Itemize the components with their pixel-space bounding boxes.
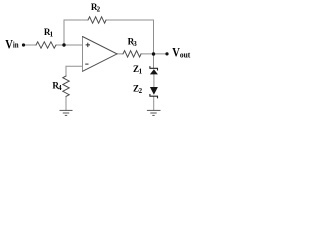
ground under Z2 <box>147 110 161 115</box>
svg-text:Vout: Vout <box>172 47 190 60</box>
resistor R1 <box>36 42 56 48</box>
node junction output rail <box>152 52 155 55</box>
svg-text:Z1: Z1 <box>133 64 143 75</box>
node Vin terminal dot <box>22 43 25 46</box>
svg-text:R2: R2 <box>91 2 101 13</box>
wire R1 to op-amp plus input <box>56 44 83 46</box>
resistor R3 <box>123 51 141 57</box>
wire feedback left vertical <box>63 20 65 45</box>
wire Z2 to right ground <box>153 96 155 110</box>
zener Z2 anode triangle <box>150 87 158 95</box>
zener Z2 cathode bar with bent ends <box>150 94 158 98</box>
wire right rail top vertical <box>153 20 155 54</box>
zener Z1 cathode bar with bent ends <box>150 66 158 70</box>
wire right rail to zener Z1 <box>153 54 155 68</box>
svg-text:R4: R4 <box>52 81 62 92</box>
op-amp left edge <box>82 37 84 72</box>
svg-text:Vin: Vin <box>5 39 19 52</box>
wire op-amp output to R3 <box>117 53 123 55</box>
svg-text:R1: R1 <box>44 27 54 38</box>
wire between zeners <box>153 74 155 87</box>
zener Z1 anode triangle <box>150 69 158 74</box>
op-amp U1 body sloped edges <box>83 37 118 72</box>
wire R2 to right rail corner <box>106 19 154 21</box>
wire Vin to R1 <box>25 44 36 46</box>
wire R3 to output terminal <box>141 53 166 55</box>
wire R4 to left ground <box>65 96 67 110</box>
resistor R4 <box>63 76 69 96</box>
wire down to R4 <box>65 66 67 76</box>
node junction R1 R2 plus-input <box>62 43 65 46</box>
op-amp minus input marking <box>85 63 88 65</box>
node Vout terminal dot <box>165 52 168 55</box>
svg-text:Z2: Z2 <box>133 84 143 95</box>
svg-text:R3: R3 <box>128 37 138 48</box>
wire op-amp minus input horizontal <box>66 65 83 67</box>
ground under R4 <box>60 110 73 115</box>
resistor R2 <box>88 17 106 23</box>
wire top left to R2 <box>64 19 88 21</box>
op-amp plus input marking <box>86 43 90 47</box>
